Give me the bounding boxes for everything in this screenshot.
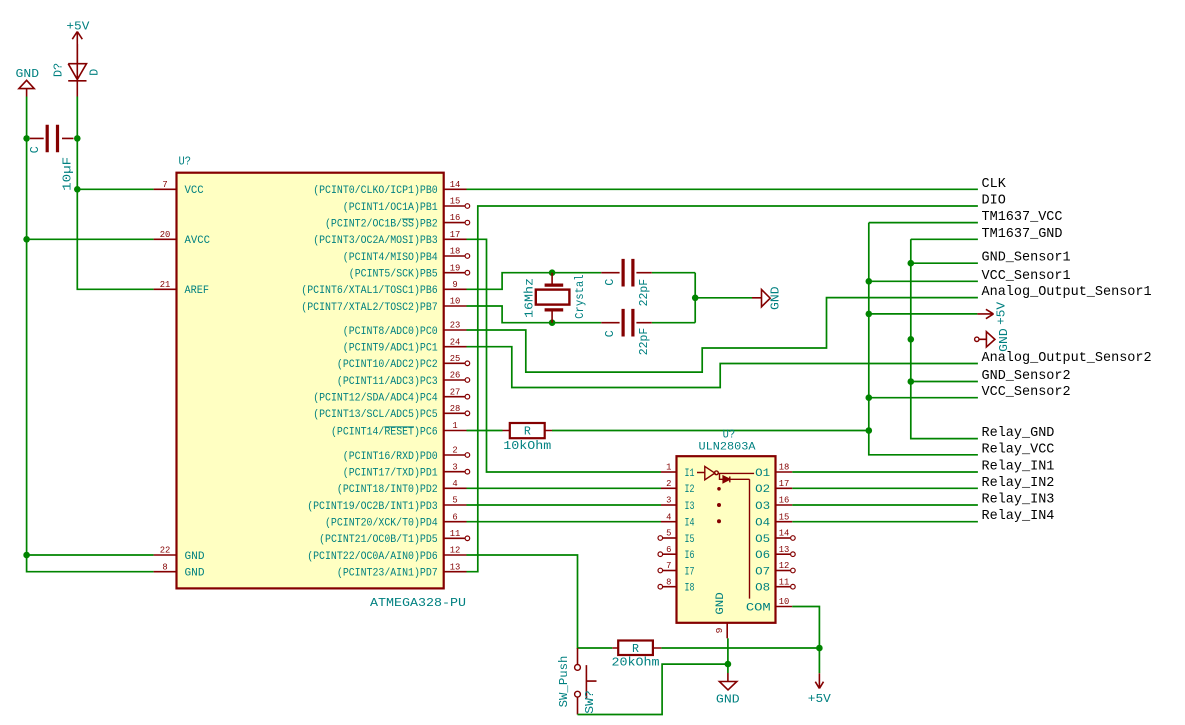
U? ULN pin 13 O6 (755, 544, 795, 562)
U? pin 21 AREF (154, 279, 209, 297)
wire XTAL2 pin 10 to crystal bottom rail (467, 306, 602, 323)
U? ULN pin 15 O4 (755, 511, 792, 529)
junction GND mid (908, 336, 915, 343)
svg-text:(PCINT16/RXD)PD0: (PCINT16/RXD)PD0 (343, 451, 438, 463)
svg-text:18: 18 (779, 462, 790, 473)
svg-text:Relay_GND: Relay_GND (982, 425, 1055, 441)
svg-text:(PCINT0/CLKO/ICP1)PB0: (PCINT0/CLKO/ICP1)PB0 (313, 185, 438, 197)
svg-text:VCC_Sensor2: VCC_Sensor2 (982, 384, 1071, 400)
svg-text:I5: I5 (685, 534, 695, 546)
svg-text:I8: I8 (685, 583, 695, 595)
svg-text:5: 5 (452, 495, 458, 506)
svg-text:I1: I1 (685, 468, 695, 480)
svg-text:4: 4 (452, 478, 458, 489)
svg-text:SW?: SW? (584, 690, 597, 714)
svg-text:22pF: 22pF (638, 279, 651, 307)
svg-text:(PCINT7/XTAL2/TOSC2)PB7: (PCINT7/XTAL2/TOSC2)PB7 (301, 302, 437, 314)
svg-text:I7: I7 (685, 566, 695, 578)
svg-text:11: 11 (450, 528, 461, 539)
svg-text:20: 20 (160, 229, 171, 240)
U? ULN pin 1 I1 (661, 462, 695, 480)
svg-text:+5V: +5V (808, 693, 831, 706)
svg-text:GND: GND (715, 592, 727, 615)
svg-text:18: 18 (450, 246, 461, 257)
power symbol +5V (bottom, arrow down) (818, 648, 820, 673)
wire GND net left: gnd symbol down left side to AVCC pin 20, GND pins 22 and 8 (27, 97, 154, 572)
U? ULN pin 2 I2 (661, 478, 695, 496)
svg-text:GND: GND (998, 328, 1011, 352)
wire PD3 to ULN I3 (467, 504, 662, 506)
U? pin 14 (PCINT0/CLKO/ICP1)PB0 (313, 179, 466, 197)
svg-text:21: 21 (160, 279, 171, 290)
svg-text:22: 22 (160, 545, 171, 556)
junction VCC_Sensor1 (866, 278, 873, 285)
wire DIO: pin 13 PD7 up and across (467, 206, 978, 572)
svg-text:O6: O6 (755, 550, 770, 562)
svg-text:Analog_Output_Sensor1: Analog_Output_Sensor1 (982, 284, 1152, 300)
junction +5V bottom (816, 645, 823, 652)
svg-text:I4: I4 (685, 518, 695, 530)
U? pin 2 (PCINT16/RXD)PD0 (343, 445, 470, 463)
svg-text:(PCINT4/MISO)PB4: (PCINT4/MISO)PB4 (343, 252, 438, 264)
svg-text:I3: I3 (685, 501, 695, 513)
wire to +5V arrow (right) (869, 313, 978, 315)
svg-text:2: 2 (666, 478, 672, 489)
resistor R 10kOhm (467, 430, 503, 432)
svg-text:VCC_Sensor1: VCC_Sensor1 (982, 268, 1071, 284)
svg-text:10: 10 (450, 296, 461, 307)
svg-text:C: C (604, 279, 617, 286)
svg-text:TM1637_VCC: TM1637_VCC (982, 209, 1063, 225)
junction GND bottom (725, 661, 732, 668)
wire PB3 to ULN I1 (467, 239, 662, 472)
junction crystal top (549, 269, 556, 276)
junction cap left (23, 135, 30, 142)
svg-text:R: R (524, 426, 531, 439)
svg-text:+5V: +5V (995, 302, 1008, 325)
U? ULN pin 8 I8 (658, 576, 695, 594)
svg-text:R: R (632, 643, 639, 656)
LED D? (68, 44, 86, 97)
U? pin 28 (PCINT13/SCL/ADC5)PC5 (313, 403, 470, 421)
U? ULN pin 12 O7 (755, 560, 795, 578)
U? pin 18 (PCINT4/MISO)PB4 (343, 246, 470, 264)
U? pin 22 GND (154, 545, 205, 563)
svg-text:13: 13 (450, 561, 461, 572)
wire switch bottom to GND junction (578, 664, 728, 714)
junction GND_Sensor2 (908, 378, 915, 385)
svg-text:SW_Push: SW_Push (558, 656, 571, 708)
U? pin 11 (PCINT21/OC0B/T1)PD5 (319, 528, 470, 546)
svg-text:17: 17 (779, 478, 790, 489)
wire RESET pullup to +5V bus (552, 430, 869, 432)
svg-text:U?: U? (179, 155, 192, 169)
wire PD4 to ULN I4 (467, 521, 662, 523)
svg-text:Relay_IN4: Relay_IN4 (982, 508, 1055, 524)
svg-text:(PCINT6/XTAL1/TOSC1)PB6: (PCINT6/XTAL1/TOSC1)PB6 (301, 285, 437, 297)
wire TM1637_VCC (869, 222, 978, 224)
junction LED/cap node (74, 135, 81, 142)
svg-text:U?: U? (723, 427, 736, 441)
svg-text:(PCINT8/ADC0)PC0: (PCINT8/ADC0)PC0 (343, 326, 438, 338)
svg-text:22pF: 22pF (638, 328, 651, 356)
svg-text:GND_Sensor2: GND_Sensor2 (982, 368, 1071, 384)
U? ULN pin 6 I6 (658, 544, 695, 562)
junction RESET pullup (866, 427, 873, 434)
svg-text:O3: O3 (755, 501, 770, 513)
svg-text:COM: COM (746, 602, 771, 614)
svg-text:14: 14 (779, 528, 790, 539)
svg-text:(PCINT14/RESET)PC6: (PCINT14/RESET)PC6 (331, 426, 438, 438)
svg-text:(PCINT22/OC0A/AIN0)PD6: (PCINT22/OC0A/AIN0)PD6 (307, 551, 438, 563)
U? pin 13 (PCINT23/AIN1)PD7 (337, 561, 467, 579)
U? pin 25 (PCINT10/ADC2)PC2 (337, 353, 470, 371)
U? ULN pin 9 GND (bottom) (726, 623, 728, 639)
svg-text:26: 26 (450, 370, 461, 381)
U? pin 27 (PCINT12/SDA/ADC4)PC4 (313, 386, 470, 404)
wire +5V net: LED cathode down to cap junction, to VCC pin 7 and AREF pin 21 (77, 97, 153, 290)
junction VCC branch (74, 186, 81, 193)
svg-text:5: 5 (666, 528, 672, 539)
wire PD2 to ULN I2 (467, 487, 662, 489)
svg-text:16: 16 (450, 212, 461, 223)
junction GND_Sensor1 (908, 260, 915, 267)
wire ULN pin9 down to GND (727, 638, 729, 673)
svg-text:GND: GND (185, 568, 205, 580)
svg-text:DIO: DIO (982, 193, 1006, 209)
svg-text:ULN2803A: ULN2803A (699, 442, 756, 454)
svg-text:9: 9 (714, 627, 725, 633)
svg-text:O4: O4 (755, 518, 770, 530)
U? pin 15 (PCINT1/OC1A)PB1 (343, 196, 470, 214)
crystal Y? 16Mhz (536, 273, 570, 323)
svg-text:GND: GND (185, 551, 205, 563)
svg-text:I6: I6 (685, 550, 695, 562)
svg-text:3: 3 (452, 461, 458, 472)
wire GND_Sensor2 (911, 381, 978, 383)
ULN internal darlington graphic (697, 466, 754, 598)
junction +5V right (866, 311, 873, 318)
svg-text:I2: I2 (685, 484, 695, 496)
svg-text:11: 11 (779, 576, 790, 587)
capacitor C 10uF (30, 125, 74, 152)
svg-text:O5: O5 (755, 534, 770, 546)
svg-text:C: C (29, 146, 42, 153)
ULN ellipsis dots (717, 487, 721, 491)
svg-text:(PCINT10/ADC2)PC2: (PCINT10/ADC2)PC2 (337, 359, 438, 371)
U? ULN pin 4 I4 (661, 511, 695, 529)
svg-text:10: 10 (779, 596, 790, 607)
ground symbol GND (top left) (19, 80, 34, 96)
svg-text:28: 28 (450, 403, 461, 414)
wire COM to +5V bottom (792, 607, 819, 649)
switch SW? SW_Push (575, 648, 597, 715)
U? ULN pin 17 O2 (755, 478, 792, 496)
svg-text:D?: D? (53, 63, 66, 77)
U? pin 1 (PCINT14/RESET)PC6 (331, 420, 467, 438)
svg-text:O7: O7 (755, 566, 770, 578)
svg-text:(PCINT1/OC1A)PB1: (PCINT1/OC1A)PB1 (343, 202, 438, 214)
U? ULN pin 16 O3 (755, 495, 792, 513)
svg-text:12: 12 (450, 545, 461, 556)
junction cap gnd (692, 295, 699, 302)
svg-text:(PCINT12/SDA/ADC4)PC4: (PCINT12/SDA/ADC4)PC4 (313, 393, 438, 405)
ground symbol GND (right, floating) (975, 332, 995, 347)
svg-text:AVCC: AVCC (185, 235, 211, 247)
svg-text:+5V: +5V (66, 21, 89, 34)
svg-text:Analog_Output_Sensor2: Analog_Output_Sensor2 (982, 350, 1152, 366)
U? pin 19 (PCINT5/SCK)PB5 (349, 262, 470, 280)
svg-text:23: 23 (450, 320, 461, 331)
wire Relay_IN3 from O3 (792, 504, 978, 506)
U? pin 16 (PCINT2/OC1B/SS)PB2 (325, 212, 470, 230)
svg-text:15: 15 (779, 511, 790, 522)
U? pin 9 (PCINT6/XTAL1/TOSC1)PB6 (301, 279, 466, 297)
U? ULN pin 18 O1 (755, 462, 792, 480)
svg-text:Relay_IN1: Relay_IN1 (982, 459, 1055, 475)
ground symbol GND (bottom) (719, 673, 736, 690)
wire CLK from pin 14 PB0 (467, 188, 978, 190)
U? pin 17 (PCINT3/OC2A/MOSI)PB3 (313, 229, 466, 247)
svg-text:Relay_IN3: Relay_IN3 (982, 492, 1055, 508)
IC U? ULN2803A body (677, 456, 776, 623)
svg-text:(PCINT19/OC2B/INT1)PD3: (PCINT19/OC2B/INT1)PD3 (307, 501, 438, 513)
wire GND_Sensor1 (911, 262, 978, 264)
svg-text:(PCINT5/SCK)PB5: (PCINT5/SCK)PB5 (349, 269, 438, 281)
ground symbol GND (crystal) (752, 290, 770, 307)
svg-text:14: 14 (450, 179, 461, 190)
resistor R 20kOhm (612, 641, 661, 656)
svg-text:(PCINT18/INT0)PD2: (PCINT18/INT0)PD2 (337, 484, 438, 496)
svg-text:AREF: AREF (185, 285, 210, 297)
op-amp U1 equivalent: IC U? ATMEGA328-PU body (177, 173, 444, 589)
svg-text:12: 12 (779, 560, 790, 571)
U? ULN pin 14 O5 (755, 528, 795, 546)
svg-text:GND_Sensor1: GND_Sensor1 (982, 250, 1071, 266)
wire XTAL1 pin 9 to crystal top rail (467, 273, 602, 290)
svg-text:(PCINT20/XCK/T0)PD4: (PCINT20/XCK/T0)PD4 (325, 518, 438, 530)
U? pin 4 (PCINT18/INT0)PD2 (337, 478, 467, 496)
wire +5V bus vertical (869, 223, 978, 455)
svg-text:GND: GND (770, 286, 783, 310)
svg-text:16Mhz: 16Mhz (524, 278, 537, 318)
capacitor C 22pF (top) (601, 259, 652, 287)
svg-text:(PCINT23/AIN1)PD7: (PCINT23/AIN1)PD7 (337, 568, 438, 580)
svg-text:(PCINT3/OC2A/MOSI)PB3: (PCINT3/OC2A/MOSI)PB3 (313, 235, 438, 247)
U? ULN pin 3 I3 (661, 495, 695, 513)
svg-text:17: 17 (450, 229, 461, 240)
wire 20k to +5V bottom junction (661, 647, 819, 649)
svg-text:3: 3 (666, 495, 672, 506)
svg-text:TM1637_GND: TM1637_GND (982, 226, 1063, 242)
svg-text:O2: O2 (755, 484, 770, 496)
capacitor C 22pF (bottom) (601, 309, 652, 337)
junction AVCC branch (23, 236, 30, 243)
svg-text:25: 25 (450, 353, 461, 364)
svg-text:GND: GND (16, 68, 40, 81)
svg-text:GND: GND (716, 693, 740, 706)
U? pin 10 (PCINT7/XTAL2/TOSC2)PB7 (301, 296, 466, 314)
U? pin 6 (PCINT20/XCK/T0)PD4 (325, 511, 467, 529)
svg-text:O8: O8 (755, 583, 770, 595)
svg-text:8: 8 (666, 576, 672, 587)
svg-text:(PCINT9/ADC1)PC1: (PCINT9/ADC1)PC1 (343, 343, 438, 355)
power symbol +5V (right, arrow) (977, 309, 993, 318)
svg-text:8: 8 (162, 561, 168, 572)
svg-text:7: 7 (162, 179, 167, 190)
svg-text:19: 19 (450, 262, 461, 273)
wire VCC_Sensor1 (869, 280, 978, 282)
svg-text:ATMEGA328-PU: ATMEGA328-PU (370, 596, 466, 610)
svg-text:(PCINT21/OC0B/T1)PD5: (PCINT21/OC0B/T1)PD5 (319, 534, 438, 546)
U? pin 7 VCC (154, 179, 204, 197)
wire Relay_IN4 from O4 (792, 521, 978, 523)
wire Analog_Output_Sensor1 from pin 23 ADC0 (467, 298, 978, 373)
power symbol +5V (top left) (72, 32, 82, 64)
svg-text:D: D (89, 69, 102, 76)
svg-text:4: 4 (666, 511, 672, 522)
U? pin 26 (PCINT11/ADC3)PC3 (337, 370, 470, 388)
svg-text:VCC: VCC (185, 185, 204, 197)
svg-text:(PCINT2/OC1B/SS)PB2: (PCINT2/OC1B/SS)PB2 (325, 219, 438, 231)
svg-text:9: 9 (452, 279, 458, 290)
svg-text:24: 24 (450, 336, 461, 347)
svg-text:Crystal: Crystal (574, 274, 587, 319)
svg-text:7: 7 (666, 560, 671, 571)
svg-text:CLK: CLK (982, 176, 1007, 192)
wire VCC_Sensor2 (869, 397, 978, 399)
svg-text:Relay_IN2: Relay_IN2 (982, 475, 1055, 491)
svg-text:1: 1 (666, 462, 672, 473)
svg-text:20kOhm: 20kOhm (612, 655, 660, 669)
svg-text:6: 6 (452, 511, 458, 522)
U? pin 3 (PCINT17/TXD)PD1 (343, 461, 470, 479)
svg-text:13: 13 (779, 544, 790, 555)
wire PD6 to 20k resistor corner (467, 555, 613, 648)
svg-text:10µF: 10µF (62, 157, 75, 191)
U? ULN pin 11 O8 (755, 576, 795, 594)
junction VCC_Sensor2 (866, 394, 873, 401)
U? pin 20 AVCC (154, 229, 211, 247)
svg-text:(PCINT17/TXD)PD1: (PCINT17/TXD)PD1 (343, 468, 438, 480)
U? ULN pin 5 I5 (658, 528, 695, 546)
wire Relay_IN1 from O1 (792, 471, 978, 473)
svg-text:27: 27 (450, 386, 461, 397)
U? pin 24 (PCINT9/ADC1)PC1 (343, 336, 467, 354)
wire to crystal GND (695, 297, 752, 299)
U? pin 8 GND (154, 561, 205, 579)
svg-text:1: 1 (452, 420, 458, 431)
wire cap right vertical (652, 272, 695, 274)
svg-text:2: 2 (452, 445, 458, 456)
wire Analog_Output_Sensor2 from pin 24 ADC1 (467, 347, 978, 388)
svg-text:O1: O1 (755, 468, 770, 480)
svg-text:16: 16 (779, 495, 790, 506)
svg-text:Relay_VCC: Relay_VCC (982, 441, 1055, 457)
junction crystal bottom (549, 319, 556, 326)
wire GND bus vertical (911, 239, 978, 438)
svg-text:15: 15 (450, 196, 461, 207)
U? ULN pin 10 COM (746, 596, 792, 614)
wire TM1637_GND (911, 238, 978, 240)
wire Relay_IN2 from O2 (792, 487, 978, 489)
svg-text:(PCINT11/ADC3)PC3: (PCINT11/ADC3)PC3 (337, 376, 438, 388)
svg-text:C: C (604, 330, 617, 337)
U? pin 23 (PCINT8/ADC0)PC0 (343, 320, 467, 338)
U? ULN pin 7 I7 (658, 560, 695, 578)
U? pin 12 (PCINT22/OC0A/AIN0)PD6 (307, 545, 466, 563)
svg-text:6: 6 (666, 544, 672, 555)
svg-text:10kOhm: 10kOhm (503, 439, 551, 453)
U? pin 5 (PCINT19/OC2B/INT1)PD3 (307, 495, 466, 513)
junction GND pin22 branch (23, 552, 30, 559)
svg-text:(PCINT13/SCL/ADC5)PC5: (PCINT13/SCL/ADC5)PC5 (313, 409, 438, 421)
